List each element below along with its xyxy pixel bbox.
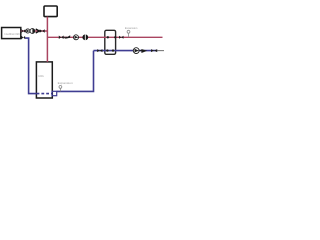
wire: blue dashed segment under cylinder <box>37 93 52 95</box>
wire: blue return right vertical and lower-right run <box>57 51 94 92</box>
boiler (left box) <box>2 28 21 39</box>
valve: boiler return isolation valve <box>22 36 26 39</box>
cylinder (storage tank) <box>36 62 52 98</box>
pump: system circulator on return <box>133 48 139 54</box>
air vent on supply line <box>128 33 130 38</box>
svg-text:Expansion: Expansion <box>58 81 73 85</box>
low loss header (tall middle box) <box>105 30 116 54</box>
wire: red main supply horizontal <box>47 36 162 38</box>
flow arrow on return <box>141 49 147 53</box>
pump: boiler circulator <box>26 29 30 33</box>
flow arrow on main supply line <box>64 35 70 39</box>
valve right of header on supply <box>119 36 124 39</box>
valve on return before header <box>97 49 102 52</box>
valve on main supply line <box>59 36 64 40</box>
ball valve (dark disc) on supply line <box>82 34 88 40</box>
gauge: circle fitting on boiler supply <box>30 29 35 34</box>
wire: blue return horizontal upper <box>94 50 158 52</box>
air vent on bottom return line <box>59 88 61 92</box>
node: junction dot left on red line <box>107 36 109 38</box>
wire: red supply vertical from expansion tank down to cylinder <box>46 17 48 62</box>
fitting between tank return segments <box>52 91 57 95</box>
svg-text:100G: 100G <box>38 74 44 78</box>
svg-text:Intellihot i199: Intellihot i199 <box>5 32 20 36</box>
valve: boiler supply isolation valve <box>22 29 26 33</box>
node: junction dot left on blue line <box>106 49 108 51</box>
wire: red supply row from boiler to vertical <box>21 30 48 32</box>
check valve on boiler supply <box>36 29 40 33</box>
expansion tank (top box) <box>44 6 57 17</box>
valve: second isolation valve on boiler supply <box>40 29 45 33</box>
wire: blue lower-left run with corner at left <box>25 38 37 94</box>
pump: primary circulator on supply line <box>74 35 79 40</box>
valve: return isolation valve <box>151 49 157 52</box>
svg-text:Expansion: Expansion <box>125 26 138 30</box>
wire: gray stub end of return <box>157 50 164 52</box>
node: junction dot right on red line <box>114 36 116 38</box>
node: junction dot right on blue line <box>112 49 114 51</box>
